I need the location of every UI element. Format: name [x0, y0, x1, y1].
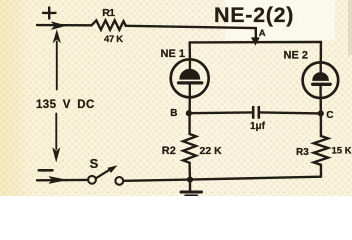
- svg-text:135 V DC: 135 V DC: [36, 99, 95, 111]
- battery plus terminal: [43, 7, 56, 18]
- resistor R3: [314, 136, 328, 165]
- svg-text:C: C: [326, 110, 333, 121]
- neon lamp NE1: [171, 59, 209, 97]
- label R1: [102, 7, 115, 19]
- wire: R1 to node A: [126, 26, 256, 42]
- svg-text:NE 2: NE 2: [284, 50, 308, 62]
- wire: rail to NE2: [320, 42, 323, 62]
- svg-text:R2: R2: [162, 145, 176, 157]
- svg-text:NE 1: NE 1: [161, 48, 185, 60]
- svg-text:NE-2(2): NE-2(2): [214, 3, 294, 27]
- label 135 V DC: [36, 99, 95, 111]
- svg-text:22 K: 22 K: [200, 145, 223, 157]
- resistor R1: [92, 20, 126, 29]
- label NE1: [161, 48, 185, 60]
- svg-text:B: B: [170, 108, 177, 119]
- wire: capacitor to C: [260, 112, 320, 113]
- svg-text:47 K: 47 K: [104, 34, 123, 45]
- svg-text:1μf: 1μf: [250, 121, 266, 132]
- neon lamp NE2: [303, 62, 339, 98]
- value 15K: [332, 145, 352, 156]
- value 1uf: [250, 121, 266, 132]
- wire: NE2 to node C: [320, 98, 322, 113]
- svg-text:R3: R3: [296, 147, 309, 158]
- svg-text:A: A: [259, 28, 266, 39]
- ground: [181, 180, 202, 196]
- battery minus terminal: [39, 169, 53, 172]
- capacitor C1 1uf: [253, 107, 259, 118]
- svg-text:S: S: [90, 156, 99, 171]
- 135 V DC source annotation arrow down: [53, 114, 60, 162]
- label NE2: [284, 50, 308, 62]
- svg-text:R1: R1: [102, 7, 115, 19]
- wire: R2 to bottom rail: [188, 163, 191, 180]
- wire: switch to bottom-right corner: [124, 177, 321, 181]
- wire: NE1 to node B: [188, 97, 191, 113]
- wire: R3 to bottom rail corner: [320, 165, 323, 177]
- node A: [252, 28, 266, 45]
- 135 V DC source annotation arrow up: [53, 31, 60, 90]
- wire: top rail: [190, 41, 321, 44]
- value 47K: [104, 34, 123, 45]
- switch S: [88, 156, 123, 185]
- svg-text:15 K: 15 K: [332, 145, 352, 156]
- wire: C to R3: [320, 113, 322, 136]
- label R2: [162, 145, 176, 157]
- wire: B to capacitor: [189, 111, 252, 114]
- ground junction: [187, 177, 193, 183]
- node C junction: [318, 110, 333, 121]
- resistor R2: [183, 134, 196, 163]
- title NE-2(2): [214, 3, 294, 27]
- wire: rail to NE1: [188, 42, 191, 59]
- wire: battery minus to switch: [37, 177, 88, 184]
- node B junction: [170, 108, 191, 119]
- wire: battery plus to R1: [37, 22, 92, 30]
- label R3: [296, 147, 309, 158]
- value 22K: [200, 145, 223, 157]
- wire: B to R2: [188, 113, 190, 134]
